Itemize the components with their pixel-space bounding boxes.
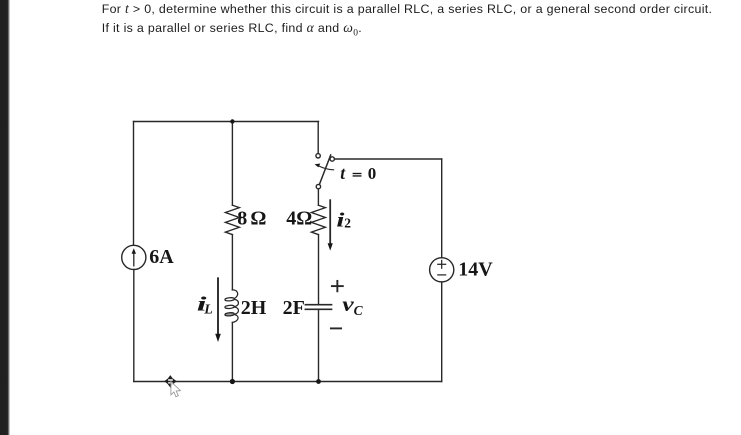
wire switch to right branch	[335, 158, 442, 160]
sidebar	[0, 0, 11, 435]
wire branch3 middle	[318, 235, 320, 304]
node dot bottom branch2	[230, 379, 235, 384]
wire switch to resistor	[317, 189, 319, 205]
cursor move icon	[164, 375, 177, 388]
capacitor minus polarity mark	[331, 327, 341, 329]
capacitor C1 bottom plate	[305, 308, 331, 310]
wire branch3 lower	[318, 310, 320, 382]
wire right branch lower	[441, 282, 443, 382]
capacitor plus polarity mark	[331, 281, 343, 329]
wire top rail	[134, 121, 319, 123]
wire branch2 upper	[231, 122, 233, 206]
svg-text:4Ω: 4Ω	[286, 208, 312, 230]
svg-text:6A: 6A	[149, 246, 174, 268]
svg-text:0: 0	[368, 164, 377, 183]
svg-text:t: t	[340, 163, 346, 183]
svg-text:14V: 14V	[458, 259, 493, 281]
wire branch2 lower	[231, 323, 233, 382]
wire left branch lower	[133, 270, 135, 382]
switch SW1 motion arc	[315, 164, 334, 170]
switch SW1 right contact	[330, 157, 334, 161]
resistor R2 4ohm zigzag	[311, 205, 325, 234]
svg-text:C: C	[354, 303, 364, 318]
node dot bottom branch3	[316, 379, 321, 384]
problem text	[102, 0, 713, 43]
voltage source V1 plus sign	[438, 260, 446, 275]
svg-text:2: 2	[344, 216, 351, 231]
node dot top branch2	[230, 119, 234, 123]
current source I1 arrow	[132, 248, 136, 266]
voltage source V1 circle	[430, 258, 454, 282]
switch SW1 bottom contact	[316, 184, 320, 188]
inductor L1 coil bumps	[225, 290, 239, 323]
current source I1 circle	[122, 245, 146, 269]
svg-text:2F: 2F	[283, 297, 305, 319]
current arrow i2	[328, 200, 333, 250]
switch SW1 left contact	[316, 154, 320, 158]
wire right branch upper	[441, 159, 443, 258]
current arrow iL	[215, 278, 221, 342]
wire branch2 middle	[231, 235, 233, 290]
resistor R1 8ohm zigzag	[225, 205, 239, 234]
inductor L1 loop ellipses	[225, 297, 235, 301]
svg-text:L: L	[203, 303, 213, 318]
wire bottom rail	[134, 381, 442, 383]
cursor arrow pointer	[171, 382, 181, 397]
svg-text:8Ω: 8Ω	[237, 207, 269, 229]
wire left branch upper	[133, 122, 135, 246]
wire branch3 top stub	[317, 122, 319, 154]
capacitor C1 top plate	[305, 304, 331, 306]
voltage source V1 minus sign	[438, 274, 446, 276]
svg-text:2H: 2H	[241, 297, 267, 319]
switch SW1 blade	[320, 155, 331, 184]
